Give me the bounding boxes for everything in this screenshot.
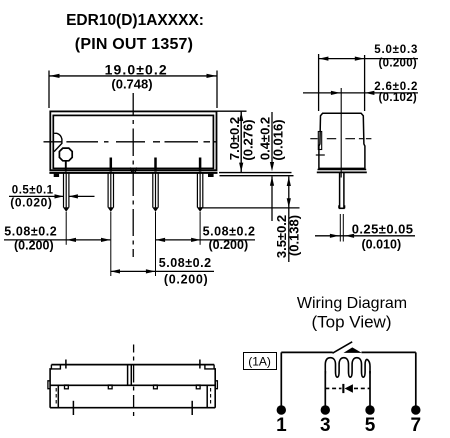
bv band bottom line [50, 384, 215, 386]
pin 2 extension [110, 212, 112, 276]
dim 5.08 bottom arrow a [111, 269, 120, 273]
svg-text:(0.276): (0.276) [240, 119, 255, 160]
bv center seam line a [127, 365, 129, 386]
dim 2.6 arrow right outside [365, 91, 374, 95]
dim 19.0 extension line left [48, 71, 50, 109]
side vertical centerline [340, 88, 342, 178]
front body flange line [49, 172, 217, 174]
pin 1 extension [65, 212, 67, 245]
dim 5.0 ext right [364, 55, 366, 111]
dim 0.25 arrow right [345, 234, 354, 238]
svg-text:1: 1 [276, 415, 287, 436]
dim 5.08 right line [156, 239, 256, 241]
node pin 7 [411, 405, 420, 414]
diode dashed wire left [325, 387, 341, 389]
svg-text:(0.138): (0.138) [287, 215, 302, 256]
svg-text:(0.102): (0.102) [379, 92, 418, 104]
diode triangle [345, 384, 353, 393]
svg-text:5.08±0.2: 5.08±0.2 [4, 224, 57, 238]
dim 0.5 arrow right [69, 194, 78, 198]
dim 0.25 arrow left [330, 234, 339, 238]
dim 7.0 line [240, 111, 242, 172]
bv bottom tick left [72, 401, 74, 415]
svg-text:(1A): (1A) [248, 354, 271, 368]
bv bottom tick right [191, 401, 193, 415]
dim 5.0 ext left [318, 54, 320, 111]
side clip detail [318, 132, 321, 150]
node pin 5 [365, 405, 374, 414]
svg-text:19.0±0.2: 19.0±0.2 [105, 61, 168, 77]
dim 19.0 dimension line [49, 75, 217, 77]
wire pin1 vertical [280, 352, 282, 406]
pin 3 extension [155, 212, 157, 276]
dim 5.08 left arrow b [101, 238, 110, 242]
dim 2.6 line [303, 92, 418, 94]
dim 0.4 arrow up [270, 176, 274, 185]
svg-text:3: 3 [320, 415, 331, 436]
dim 0.25 line [315, 235, 415, 237]
dim 0.25 ext lines [339, 214, 341, 242]
dim 5.08 bottom line [110, 270, 214, 272]
diode dashed wire right [354, 387, 370, 389]
svg-text:(0.020): (0.020) [10, 196, 52, 210]
pin 4 [197, 173, 202, 207]
pin 3 [153, 173, 158, 207]
dim 19.0 arrow right [207, 74, 217, 78]
front body outer rect [50, 111, 216, 170]
dim 7.0 arrow top [239, 112, 243, 121]
bv bottom edge [50, 407, 215, 409]
dim 5.08 bottom arrow b [146, 269, 155, 273]
pin2 lead inside body [110, 158, 113, 172]
left corner foot [54, 174, 59, 177]
wire pin7 vertical [415, 352, 417, 406]
diode cathode bar [342, 384, 344, 393]
wire pin5 vertical [369, 371, 371, 406]
svg-text:5.0±0.3: 5.0±0.3 [374, 44, 418, 56]
bv left side bump [48, 381, 50, 389]
side pin [339, 173, 345, 209]
pin 2 [108, 173, 113, 207]
svg-text:(Top View): (Top View) [312, 313, 392, 332]
bottom view centerline [133, 345, 135, 417]
dim 0.5 leader left [9, 195, 64, 197]
dim 5.0 arrow right [355, 57, 364, 61]
dim 3.5 arrow down [287, 198, 291, 207]
switch contact [344, 347, 362, 353]
dim 3.5 arrow up [287, 177, 291, 186]
dim 5.08 left line [4, 239, 110, 241]
node pin 1 [277, 405, 286, 414]
body bottom extension line right [219, 172, 292, 174]
svg-text:(0.748): (0.748) [111, 77, 152, 92]
right corner foot [208, 174, 214, 177]
bv center seam line b [130, 365, 132, 386]
bv left outer edge [50, 369, 51, 408]
svg-text:7: 7 [411, 415, 422, 436]
dim 5.0 line [319, 58, 418, 60]
polarity notch [54, 133, 62, 151]
pin1 lead inside body [65, 161, 67, 172]
pin 1 [64, 173, 69, 207]
dim 5.08 left arrow a [67, 238, 76, 242]
wire pin3 vertical [324, 371, 326, 406]
contact rating box [244, 353, 277, 370]
dim 19.0 arrow left [50, 74, 60, 78]
bv right side bump [215, 381, 217, 389]
svg-text:(0.010): (0.010) [362, 238, 402, 252]
side left tick [316, 154, 325, 156]
bv hidden line right [210, 388, 212, 404]
bv hidden line left [55, 388, 57, 404]
seating plane line [220, 175, 294, 177]
front horizontal centerline [44, 141, 217, 143]
body top extension stub right [217, 110, 247, 112]
bv pin4 socket [196, 385, 200, 389]
dim 0.5 arrow left [55, 194, 64, 198]
dim 5.08 right arrow a [156, 238, 165, 242]
bv inner wall left [57, 385, 59, 407]
bv pin1 tick top [65, 360, 67, 369]
wire top right [362, 351, 416, 353]
side horizontal centerline [310, 138, 371, 140]
bv pin3 socket [154, 385, 158, 389]
side flange line lower [317, 171, 367, 173]
svg-text:(0.200): (0.200) [14, 239, 54, 253]
dim 5.08 right arrow b [191, 238, 200, 242]
pin4 lead inside body [199, 158, 202, 172]
svg-text:(0.016): (0.016) [270, 119, 285, 160]
svg-text:Wiring Diagram: Wiring Diagram [297, 295, 407, 312]
switch blade [333, 342, 353, 353]
dim 5.0 arrow left [319, 57, 328, 61]
svg-text:5.08±0.2: 5.08±0.2 [203, 225, 256, 239]
bv right notch [205, 365, 214, 369]
pin tip level line [201, 207, 300, 209]
front body inner rect [53, 115, 213, 168]
side flange line upper [318, 169, 367, 171]
dim 0.4 arrow down [270, 162, 274, 171]
bv pin1 socket [65, 385, 69, 389]
svg-text:(PIN OUT 1357): (PIN OUT 1357) [75, 36, 193, 53]
dim 0.4 extension line [271, 112, 273, 162]
bv top edge [51, 364, 214, 366]
dim 0.4 tail [271, 176, 273, 221]
svg-text:5: 5 [365, 415, 376, 436]
dim 2.6 arrow left outside [331, 91, 340, 95]
dim 19.0 extension line right [216, 71, 218, 109]
bv inner wall right [206, 385, 208, 407]
pin3 lead inside body [154, 158, 157, 172]
dim 3.5 line [288, 176, 290, 262]
svg-text:EDR10(D)1AXXXX:: EDR10(D)1AXXXX: [66, 12, 204, 29]
svg-text:0.5±0.1: 0.5±0.1 [12, 184, 54, 196]
bv pin4 tick top [199, 360, 201, 369]
svg-text:(0.200): (0.200) [379, 58, 418, 70]
svg-text:5.08±0.2: 5.08±0.2 [159, 256, 212, 270]
side body outline [319, 113, 365, 168]
front vertical centerline [132, 93, 134, 257]
center mold tab [130, 168, 136, 173]
bv right outer edge [214, 369, 215, 408]
svg-text:(0.200): (0.200) [164, 273, 209, 287]
svg-text:0.25±0.05: 0.25±0.05 [352, 221, 414, 236]
bv left notch [51, 365, 60, 369]
dim 7.0 arrow bottom [239, 163, 243, 172]
pin 4 extension [199, 212, 201, 245]
wire top left [281, 351, 332, 353]
dim 0.5 leader right [69, 195, 95, 197]
bv pin2 socket [108, 385, 112, 389]
node pin 3 [321, 405, 330, 414]
coil L1 [325, 358, 370, 378]
pin1 indicator octagon [59, 148, 72, 161]
